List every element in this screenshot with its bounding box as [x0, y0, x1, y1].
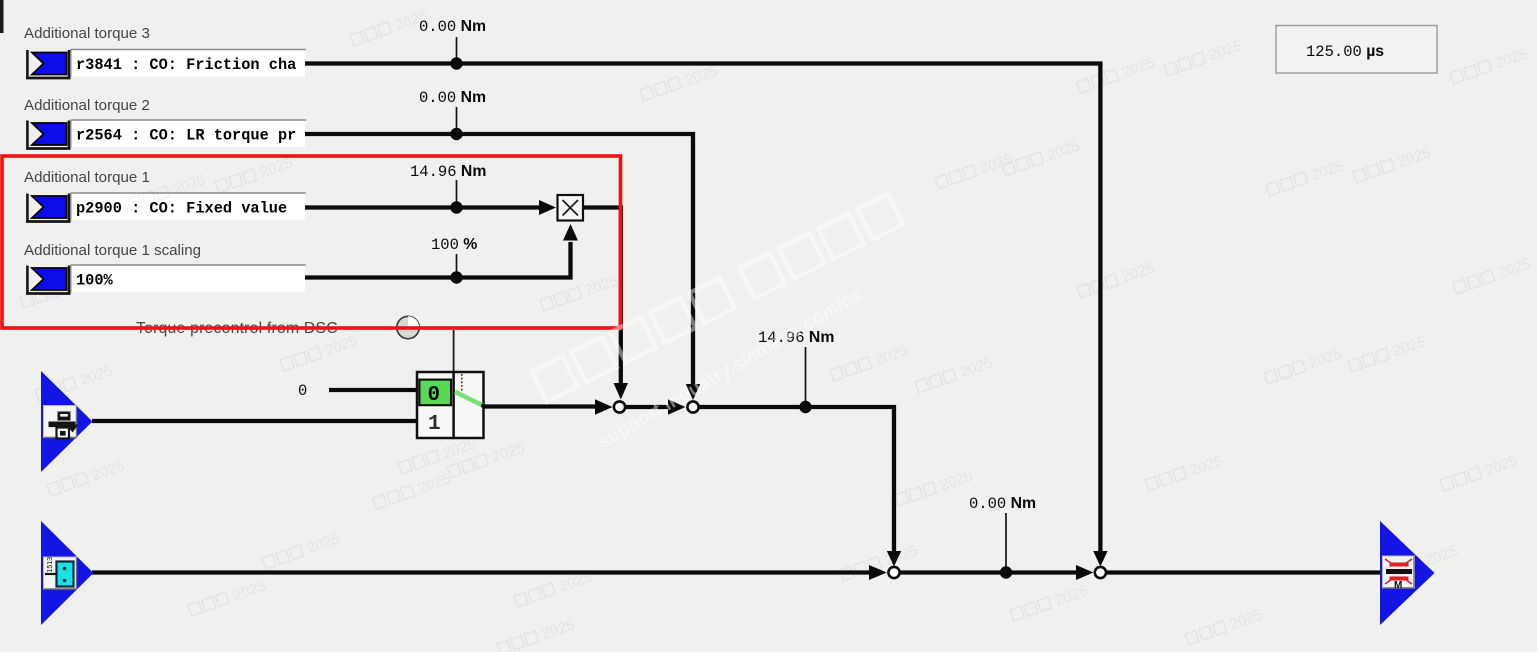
- leader line 0.00 Nm bottom: [1005, 513, 1007, 567]
- leader line 0.00 Nm row1: [456, 37, 458, 58]
- DSC status circle: [397, 316, 419, 338]
- junction dot mid 14.96: [799, 401, 811, 413]
- watermark center big: [532, 194, 903, 453]
- sampling time box 125.00 us: [1276, 26, 1437, 74]
- icon: function chart glyph: [49, 412, 79, 439]
- arrowhead before node C: [869, 565, 887, 580]
- icon: closed-loop control glyph: [45, 557, 74, 587]
- switch block: [417, 372, 486, 438]
- wire node A to node B: [626, 405, 670, 409]
- node D summation point: [1095, 567, 1106, 578]
- arrowhead before node B: [668, 399, 686, 414]
- junction dot bottom 0.00: [1000, 566, 1012, 578]
- svg-text:Additional torque 1 scaling: Additional torque 1 scaling: [24, 242, 201, 259]
- leader line 100 % row4: [456, 254, 458, 272]
- node B summation point: [687, 401, 698, 412]
- leader line 14.96 Nm row3: [456, 180, 458, 202]
- leader lines: [457, 37, 1007, 567]
- svg-text:14.96 Nm: 14.96 Nm: [410, 163, 486, 181]
- svg-text:0.00 Nm: 0.00 Nm: [419, 89, 486, 107]
- wire additional torque 3 (r3841) to right then down: [305, 64, 1100, 554]
- navigation triangle left-bottom: [41, 521, 94, 625]
- arrowhead down into node B: [686, 384, 700, 400]
- wire switch input 0: [329, 388, 418, 392]
- svg-text:1513: 1513: [47, 557, 54, 573]
- switch position 0 cell (active, green): [419, 380, 451, 406]
- svg-text:125.00 µs: 125.00 µs: [1306, 43, 1384, 61]
- leader line 14.96 Nm mid: [805, 347, 807, 402]
- svg-text:Additional torque 2: Additional torque 2: [24, 97, 150, 114]
- switch dotted guide: [461, 374, 463, 391]
- wire bottom main middle segment: [900, 570, 1078, 574]
- svg-text:Additional torque 3: Additional torque 3: [24, 25, 150, 42]
- wire scaling 100% to multiplier bottom: [305, 242, 571, 278]
- wire additional torque 2 (r2564) to right then down: [305, 134, 693, 386]
- window edge mark top-left: [0, 0, 4, 33]
- connector line from circle area to switch: [453, 330, 455, 372]
- BICO input row4: flag button + field 100%: [26, 265, 306, 294]
- junction dot row2: [450, 128, 462, 140]
- svg-text:0: 0: [428, 384, 441, 407]
- arrowhead into multiplier left: [539, 200, 556, 215]
- BICO input row1: flag button + field r3841: [26, 49, 306, 78]
- leader line 0.00 Nm row2: [456, 107, 458, 128]
- junction dot row3: [450, 201, 462, 213]
- BICO input row2: flag button + field r2564: [26, 120, 306, 149]
- wire bottom main left segment: [92, 570, 871, 574]
- node A summation point: [614, 401, 625, 412]
- arrowhead before node D: [1076, 565, 1094, 580]
- svg-text:0.00 Nm: 0.00 Nm: [419, 18, 486, 36]
- red highlight rectangle: [2, 156, 621, 328]
- svg-text:p2900 : CO: Fixed value: p2900 : CO: Fixed value: [76, 200, 287, 218]
- wire switch output to node A: [484, 404, 597, 408]
- arrowhead down into node A: [614, 383, 629, 400]
- wire bottom main right segment: [1106, 570, 1383, 574]
- BICO input row3: flag button + field p2900: [26, 193, 306, 222]
- arrowhead before node A: [595, 399, 613, 414]
- svg-text:0.00 Nm: 0.00 Nm: [969, 495, 1036, 513]
- svg-text:100 %: 100 %: [431, 236, 477, 254]
- svg-text:r3841 : CO: Friction cha: r3841 : CO: Friction cha: [76, 56, 296, 74]
- multiplier block: [558, 195, 584, 221]
- icon: motor glyph: [1385, 559, 1412, 591]
- arrowhead into multiplier bottom: [563, 224, 578, 241]
- arrowhead down into node C: [887, 551, 901, 567]
- navigation triangle left-middle: [41, 371, 93, 472]
- junction dot row4: [450, 271, 462, 283]
- wire multiplier output down to node A: [583, 208, 621, 386]
- svg-text:Additional torque 1: Additional torque 1: [24, 169, 150, 186]
- svg-text:1: 1: [428, 413, 441, 436]
- svg-text:r2564 : CO: LR torque pr: r2564 : CO: LR torque pr: [76, 127, 296, 145]
- wire additional torque 1 (p2900) to multiplier: [305, 205, 541, 209]
- node C summation point: [888, 567, 899, 578]
- junction dot row1: [450, 57, 462, 69]
- arrowhead down into node D: [1093, 551, 1107, 567]
- svg-text:M: M: [1394, 580, 1402, 591]
- svg-text:0: 0: [298, 382, 307, 400]
- wire triangle input to switch input 1: [92, 419, 418, 423]
- wire node B right then down to node C: [699, 407, 894, 553]
- switch lever (green): [455, 392, 484, 406]
- navigation triangle right (motor): [1380, 521, 1435, 625]
